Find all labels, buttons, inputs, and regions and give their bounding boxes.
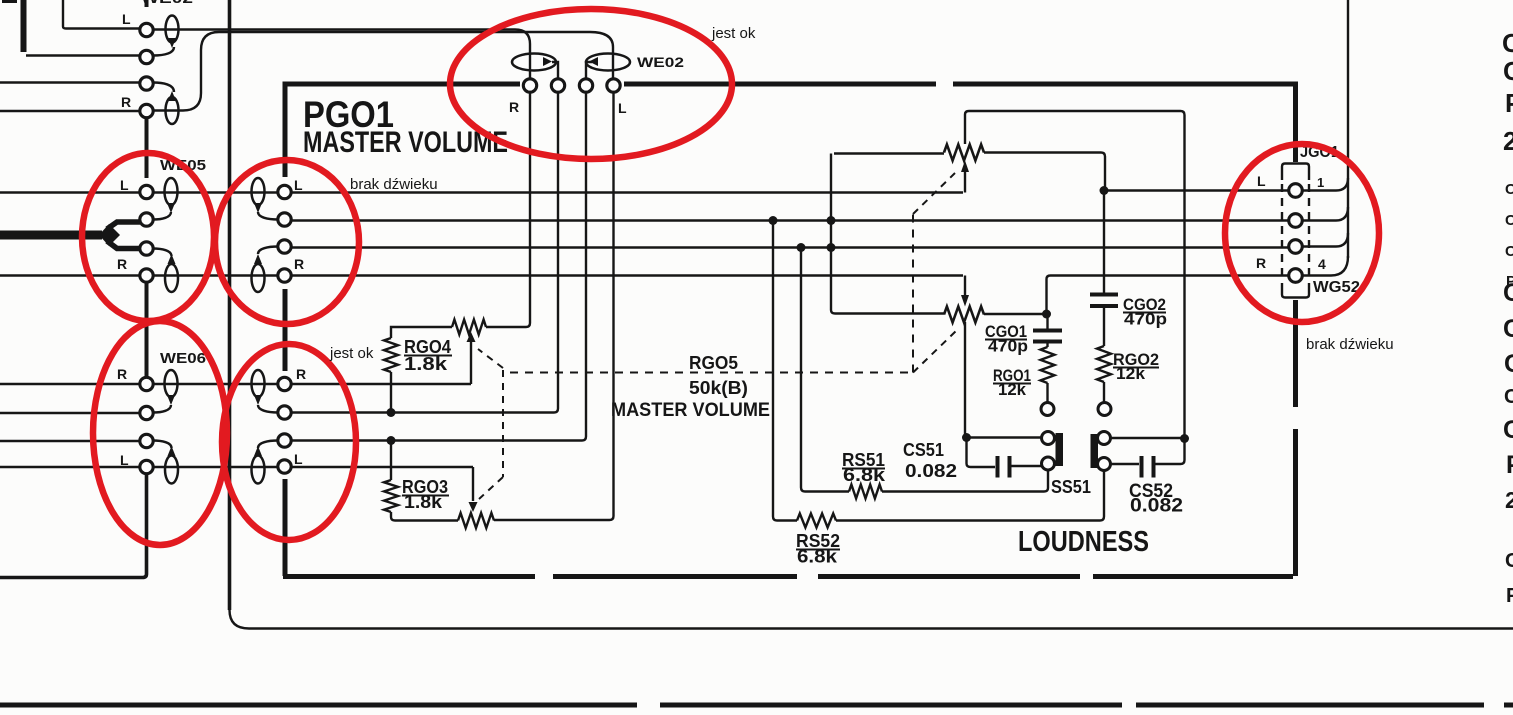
- resistor RG03: [390, 440, 392, 480]
- connector WE05 col2 pins: [278, 185, 291, 198]
- node RS52-row2: [769, 216, 778, 225]
- connector WE06 col2 pins: [278, 377, 291, 390]
- svg-text:6.8k: 6.8k: [797, 547, 838, 567]
- cable hook (WE02-old upper): [166, 16, 179, 43]
- node CS51 tap: [962, 433, 971, 442]
- node RG05u-row2: [827, 216, 836, 225]
- svg-text:L: L: [120, 452, 129, 468]
- annotation ellipse JG01: [1225, 144, 1379, 322]
- svg-text:CS51: CS51: [903, 440, 944, 460]
- switch SS51 pole2 contacts: [1098, 432, 1111, 445]
- svg-text:R: R: [296, 366, 306, 382]
- wiper RG05 upper: [964, 172, 966, 193]
- svg-text:C: C: [1504, 386, 1513, 408]
- potentiometer RG05 lower zigzag: [944, 307, 984, 323]
- svg-text:P: P: [1506, 451, 1513, 479]
- node RG03-row3: [387, 436, 396, 445]
- wire WE02 pin1 to RG04 row: [486, 93, 530, 328]
- annotation ellipse WE05 col1: [82, 153, 214, 321]
- wire to WE02old pin1 (L): [63, 0, 140, 29]
- svg-text:L: L: [294, 451, 303, 467]
- connector WE05 col1 pins: [140, 185, 153, 198]
- cable hook WE06-c2 lower: [252, 456, 265, 484]
- wire JG01 pin1 bus: [1302, 178, 1348, 191]
- svg-text:1: 1: [1317, 175, 1324, 190]
- wire row to WE02old pin3: [0, 81, 140, 83]
- potentiometer RG05 upper zigzag: [944, 145, 984, 161]
- svg-text:0.082: 0.082: [1130, 496, 1183, 517]
- wire long vertical x=229: [228, 0, 232, 610]
- terminal RG02: [1098, 403, 1111, 416]
- cable thick WE05: [0, 231, 102, 240]
- wire row4 right segment riser: [1047, 276, 1289, 315]
- svg-text:jest ok: jest ok: [711, 25, 756, 42]
- wire row1 L (y192): [0, 191, 963, 193]
- wiper lower-left pot: [472, 467, 474, 501]
- wire to WE02old pin2: [26, 54, 140, 57]
- cable hook WE05-c2 upper: [252, 178, 265, 205]
- resistor RS52: [836, 471, 1104, 521]
- wire RG05l right lead: [984, 313, 1046, 315]
- svg-text:R: R: [294, 256, 304, 272]
- svg-text:6.8k: 6.8k: [843, 465, 886, 485]
- resistor RG02: [1097, 346, 1111, 382]
- wire fragment top-left: [2, 0, 17, 3]
- tap RG05 upper to switch: [965, 111, 1185, 435]
- cable hook WE06-c1 upper: [165, 370, 178, 397]
- PG01 border bottom: [283, 574, 535, 579]
- wire WE06 row2 left: [0, 412, 140, 414]
- annotation ellipse WE06 col2: [222, 344, 356, 540]
- PG01 border top-right corner: [1293, 82, 1298, 163]
- wire WE02 pin2 drop: [554, 93, 558, 413]
- capacitor CS51: [967, 438, 996, 468]
- potentiometer section lower-left (zigzag): [458, 513, 494, 528]
- cable hook (WE02-old lower): [166, 97, 179, 124]
- gang link dashed: [502, 370, 504, 477]
- node RS51-row3: [797, 243, 806, 252]
- svg-text:R: R: [1256, 255, 1266, 271]
- svg-text:470p: 470p: [988, 337, 1028, 356]
- PG01 border top: [283, 82, 520, 87]
- svg-text:R: R: [121, 94, 131, 110]
- connector WE02-old pins: [140, 23, 153, 36]
- wire WE06 row4 L (y467): [0, 466, 473, 468]
- wire RG05u left drop: [831, 154, 944, 314]
- capacitor CS52: [1111, 463, 1140, 465]
- wire row3 (WE05 out): [291, 246, 1288, 248]
- cable hook WE05-c1 lower: [165, 264, 178, 292]
- wire SS51 pole2 to node: [1111, 437, 1185, 439]
- capacitor CG02: [1103, 191, 1105, 294]
- wire WE02 pin3 drop: [582, 93, 586, 441]
- wire JG01 pin3 bus: [1302, 233, 1348, 247]
- wire pot lower-left right lead: [494, 519, 610, 521]
- annotation ellipse WE05 col2: [215, 160, 359, 324]
- wire WE02 pin4 drop: [610, 93, 614, 521]
- svg-text:C: C: [1502, 28, 1513, 58]
- svg-text:L: L: [618, 100, 627, 116]
- svg-text:jest ok: jest ok: [329, 345, 374, 362]
- wire row4 R (y275): [0, 274, 963, 276]
- capacitor CG01: [1046, 314, 1048, 329]
- node CS52: [1180, 434, 1189, 443]
- cable hook WE02-L: [586, 54, 630, 71]
- annotation ellipse WE02: [450, 9, 732, 159]
- svg-text:MASTER VOLUME: MASTER VOLUME: [611, 400, 770, 421]
- cable hook WE06-c1 lower: [165, 456, 178, 484]
- svg-text:2: 2: [1505, 487, 1513, 513]
- connector JG01 bracket top: [1282, 164, 1309, 181]
- cable hook WE06-c2 upper: [252, 370, 265, 397]
- cable hook WE02-R: [512, 54, 556, 71]
- svg-text:L: L: [294, 177, 303, 193]
- svg-text:R: R: [509, 99, 519, 115]
- terminal RG01: [1041, 403, 1054, 416]
- cable hook WE05-c2 lower: [252, 264, 265, 292]
- wire row2 (WE05 out): [291, 219, 1288, 221]
- svg-text:1.8k: 1.8k: [404, 492, 443, 512]
- wire thick stub top-left: [21, 0, 27, 52]
- svg-text:L: L: [120, 177, 129, 193]
- svg-text:brak dźwieku: brak dźwieku: [350, 176, 438, 193]
- connector JG01 bracket bottom: [1282, 283, 1309, 298]
- svg-text:C: C: [1505, 550, 1513, 572]
- wire WE02 R loop to top connector: [153, 30, 530, 80]
- svg-text:C: C: [1505, 243, 1513, 260]
- connector JG01 pins: [1289, 184, 1303, 198]
- potentiometer section upper-left (zigzag): [452, 320, 486, 335]
- wire row1 right segment: [1104, 189, 1288, 191]
- resistor RS51: [882, 470, 1048, 492]
- svg-text:0.082: 0.082: [905, 461, 957, 481]
- connector WE06 stem bottom: [0, 475, 147, 578]
- PG01 border left: [283, 82, 288, 178]
- svg-text:C: C: [1503, 56, 1513, 86]
- wire row to WE02old pin4 (R): [0, 110, 140, 112]
- wire JG01 pin4 bus: [1302, 256, 1348, 276]
- svg-text:L: L: [1257, 173, 1266, 189]
- wire JG01 pin2 bus: [1302, 207, 1348, 221]
- svg-text:C: C: [1503, 279, 1513, 307]
- cable hook WE05-c1 upper: [165, 178, 178, 205]
- annotation ellipse WE06 col1: [93, 321, 227, 545]
- svg-text:C: C: [1505, 212, 1513, 229]
- svg-text:L: L: [122, 11, 131, 27]
- resistor RG01: [1041, 347, 1055, 383]
- svg-text:12k: 12k: [998, 380, 1027, 399]
- tap RG05 lower to switch: [965, 322, 1041, 438]
- svg-text:1.8k: 1.8k: [404, 354, 448, 374]
- svg-text:12k: 12k: [1116, 364, 1146, 383]
- PG01 border right: [1293, 300, 1298, 407]
- wire RG05u left lead: [834, 152, 944, 154]
- wire WE02 L loop S-curve: [150, 32, 613, 111]
- svg-text:2: 2: [1503, 126, 1513, 156]
- wire WE06 row3 left: [0, 440, 140, 442]
- wire JG01 bus vertical: [1347, 0, 1349, 258]
- connector WE02-old stem: [145, 118, 149, 178]
- node CG01-pot: [1042, 310, 1051, 319]
- connector JG01 dashed right: [1308, 184, 1310, 282]
- svg-text:WE06: WE06: [160, 350, 206, 367]
- svg-text:P: P: [1506, 585, 1513, 607]
- node row1-CG02: [1100, 186, 1109, 195]
- wiper RG05 lower: [964, 276, 966, 296]
- svg-text:brak dźwieku: brak dźwieku: [1306, 336, 1394, 353]
- svg-text:WG52: WG52: [1313, 279, 1360, 296]
- wire WE06 row3 out: [291, 439, 582, 441]
- svg-text:R: R: [117, 366, 127, 382]
- wire WE06 row2 out: [291, 411, 554, 413]
- wire long horizontal y=628: [230, 610, 1513, 629]
- connector WE02-old stem top: [145, 0, 149, 7]
- svg-text:WE02: WE02: [637, 54, 684, 70]
- svg-text:C: C: [1503, 315, 1513, 343]
- wire RG04 row left: [391, 327, 452, 338]
- board edge bottom dashed: [0, 703, 637, 708]
- node RG04-row2: [387, 408, 396, 417]
- svg-text:R: R: [117, 256, 127, 272]
- svg-text:50k(B): 50k(B): [689, 378, 748, 398]
- svg-text:SS51: SS51: [1051, 477, 1091, 497]
- connector WE02 pins: [523, 79, 536, 92]
- svg-text:4: 4: [1318, 256, 1326, 272]
- wire RG05u right lead: [984, 153, 1105, 189]
- wire WE06 row1 R (y384): [0, 383, 471, 385]
- svg-text:P: P: [1505, 88, 1513, 118]
- svg-text:RGO5: RGO5: [689, 353, 738, 373]
- connector WE05 stem mid: [145, 283, 149, 376]
- connector JG01 dashed left: [1281, 184, 1283, 282]
- connector WE06 col1 pins: [140, 377, 153, 390]
- wiper upper-left pot: [470, 341, 472, 384]
- resistor RG04: [384, 338, 398, 372]
- node RG05u-row3: [827, 243, 836, 252]
- switch SS51 pole1 contacts: [1042, 432, 1055, 445]
- svg-text:LOUDNESS: LOUDNESS: [1018, 526, 1149, 558]
- svg-text:C: C: [1504, 350, 1513, 378]
- svg-text:C: C: [1505, 181, 1513, 198]
- svg-text:WE02: WE02: [141, 0, 193, 7]
- svg-text:470p: 470p: [1124, 310, 1167, 329]
- svg-text:C: C: [1503, 416, 1513, 444]
